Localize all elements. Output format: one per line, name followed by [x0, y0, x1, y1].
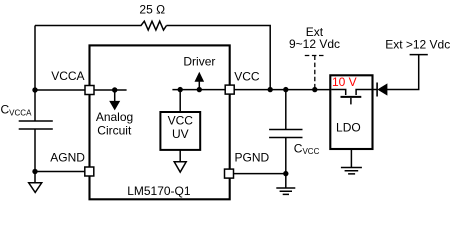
transistor: LDO pass FET symbol — [331, 90, 345, 96]
pin: VCCA pin square — [85, 86, 94, 95]
resistor R1 25 ohm — [140, 21, 167, 30]
diode D1 (cathode bar) — [376, 83, 378, 97]
node: dot from resistor branch — [268, 87, 273, 92]
svg-text:VCC: VCC — [168, 114, 194, 128]
pin: PGND pin square — [225, 169, 234, 178]
wire: C_VCC bottom to PGND rail — [285, 138, 287, 174]
wire: down to VCC UV box — [179, 90, 181, 112]
arrow: to Driver (up) — [198, 82, 200, 90]
svg-text:LM5170-Q1: LM5170-Q1 — [127, 184, 191, 198]
wire: dashed vertical Ext 9~12 — [314, 56, 316, 90]
wire: LDO box edge to diode cathode — [373, 89, 378, 91]
svg-text:9~12 Vdc: 9~12 Vdc — [289, 37, 340, 51]
node: junction dot AGND — [32, 169, 37, 174]
wire: top horizontal to resistor — [35, 25, 140, 27]
wire: VCC internal rail stub — [172, 89, 225, 91]
svg-text:PGND: PGND — [235, 151, 270, 165]
svg-text:10 V: 10 V — [332, 75, 357, 89]
diode D1 (triangle pointing left) — [378, 84, 387, 94]
svg-text:Driver: Driver — [183, 54, 215, 68]
svg-text:UV: UV — [172, 127, 189, 141]
svg-text:VCC: VCC — [234, 69, 260, 83]
IC U1 LM5170-Q1 box — [90, 45, 230, 199]
wire: C_VCCA bottom to AGND rail — [34, 129, 36, 172]
ground: analog ground triangle (left) — [34, 172, 36, 183]
block: LDO box — [330, 75, 372, 149]
pin: AGND pin square — [85, 167, 94, 176]
wire: VCCA pin wire — [35, 89, 90, 91]
node: junction dot analog — [112, 87, 117, 92]
svg-text:LDO: LDO — [336, 121, 361, 135]
wire: diode to Ext >12 Vdc terminal — [387, 55, 419, 90]
terminal: Ext >12 Vdc bar — [410, 54, 428, 56]
svg-text:Analog: Analog — [96, 110, 133, 124]
node: junction dot to Driver — [197, 87, 202, 92]
node: dot Ext 9~12 branch — [312, 87, 317, 92]
wire: resistor to VCC rail (top-right corner, down) — [167, 26, 271, 90]
svg-text:AGND: AGND — [50, 151, 85, 165]
block: VCC UV box — [160, 112, 200, 150]
wire: left vertical rail from top loop down to C_VCCA — [34, 26, 36, 122]
node: dot C_VCC branch — [283, 87, 288, 92]
terminal: Ext 9~12 Vdc dashed stub — [305, 55, 325, 57]
node: junction dot to VCC UV — [178, 87, 183, 92]
ground: earth ground under LDO — [350, 150, 352, 168]
svg-text:25 Ω: 25 Ω — [139, 3, 165, 17]
wire: down to C_VCC — [285, 90, 287, 130]
pin: VCC pin square — [225, 85, 234, 94]
node: junction dot PGND — [283, 171, 288, 176]
wire: PGND pin wire — [234, 173, 286, 175]
capacitor C_VCCA plates — [19, 121, 53, 129]
svg-text:Circuit: Circuit — [97, 123, 132, 137]
wire: AGND pin wire — [35, 171, 89, 173]
ground: power ground (earth) under C_VCC — [285, 174, 287, 188]
svg-text:VCCA: VCCA — [51, 69, 84, 83]
ground: VCC UV ground triangle — [179, 150, 181, 162]
arrow: to Analog Circuit (down) — [114, 90, 116, 101]
wire: VCC rail to LDO — [234, 89, 346, 91]
node: junction dot VCCA / C_VCCA — [32, 87, 37, 92]
wire: analog circuit stub inside IC — [94, 89, 127, 91]
capacitor C_VCC plates — [269, 130, 302, 138]
svg-text:Ext >12 Vdc: Ext >12 Vdc — [385, 38, 450, 52]
